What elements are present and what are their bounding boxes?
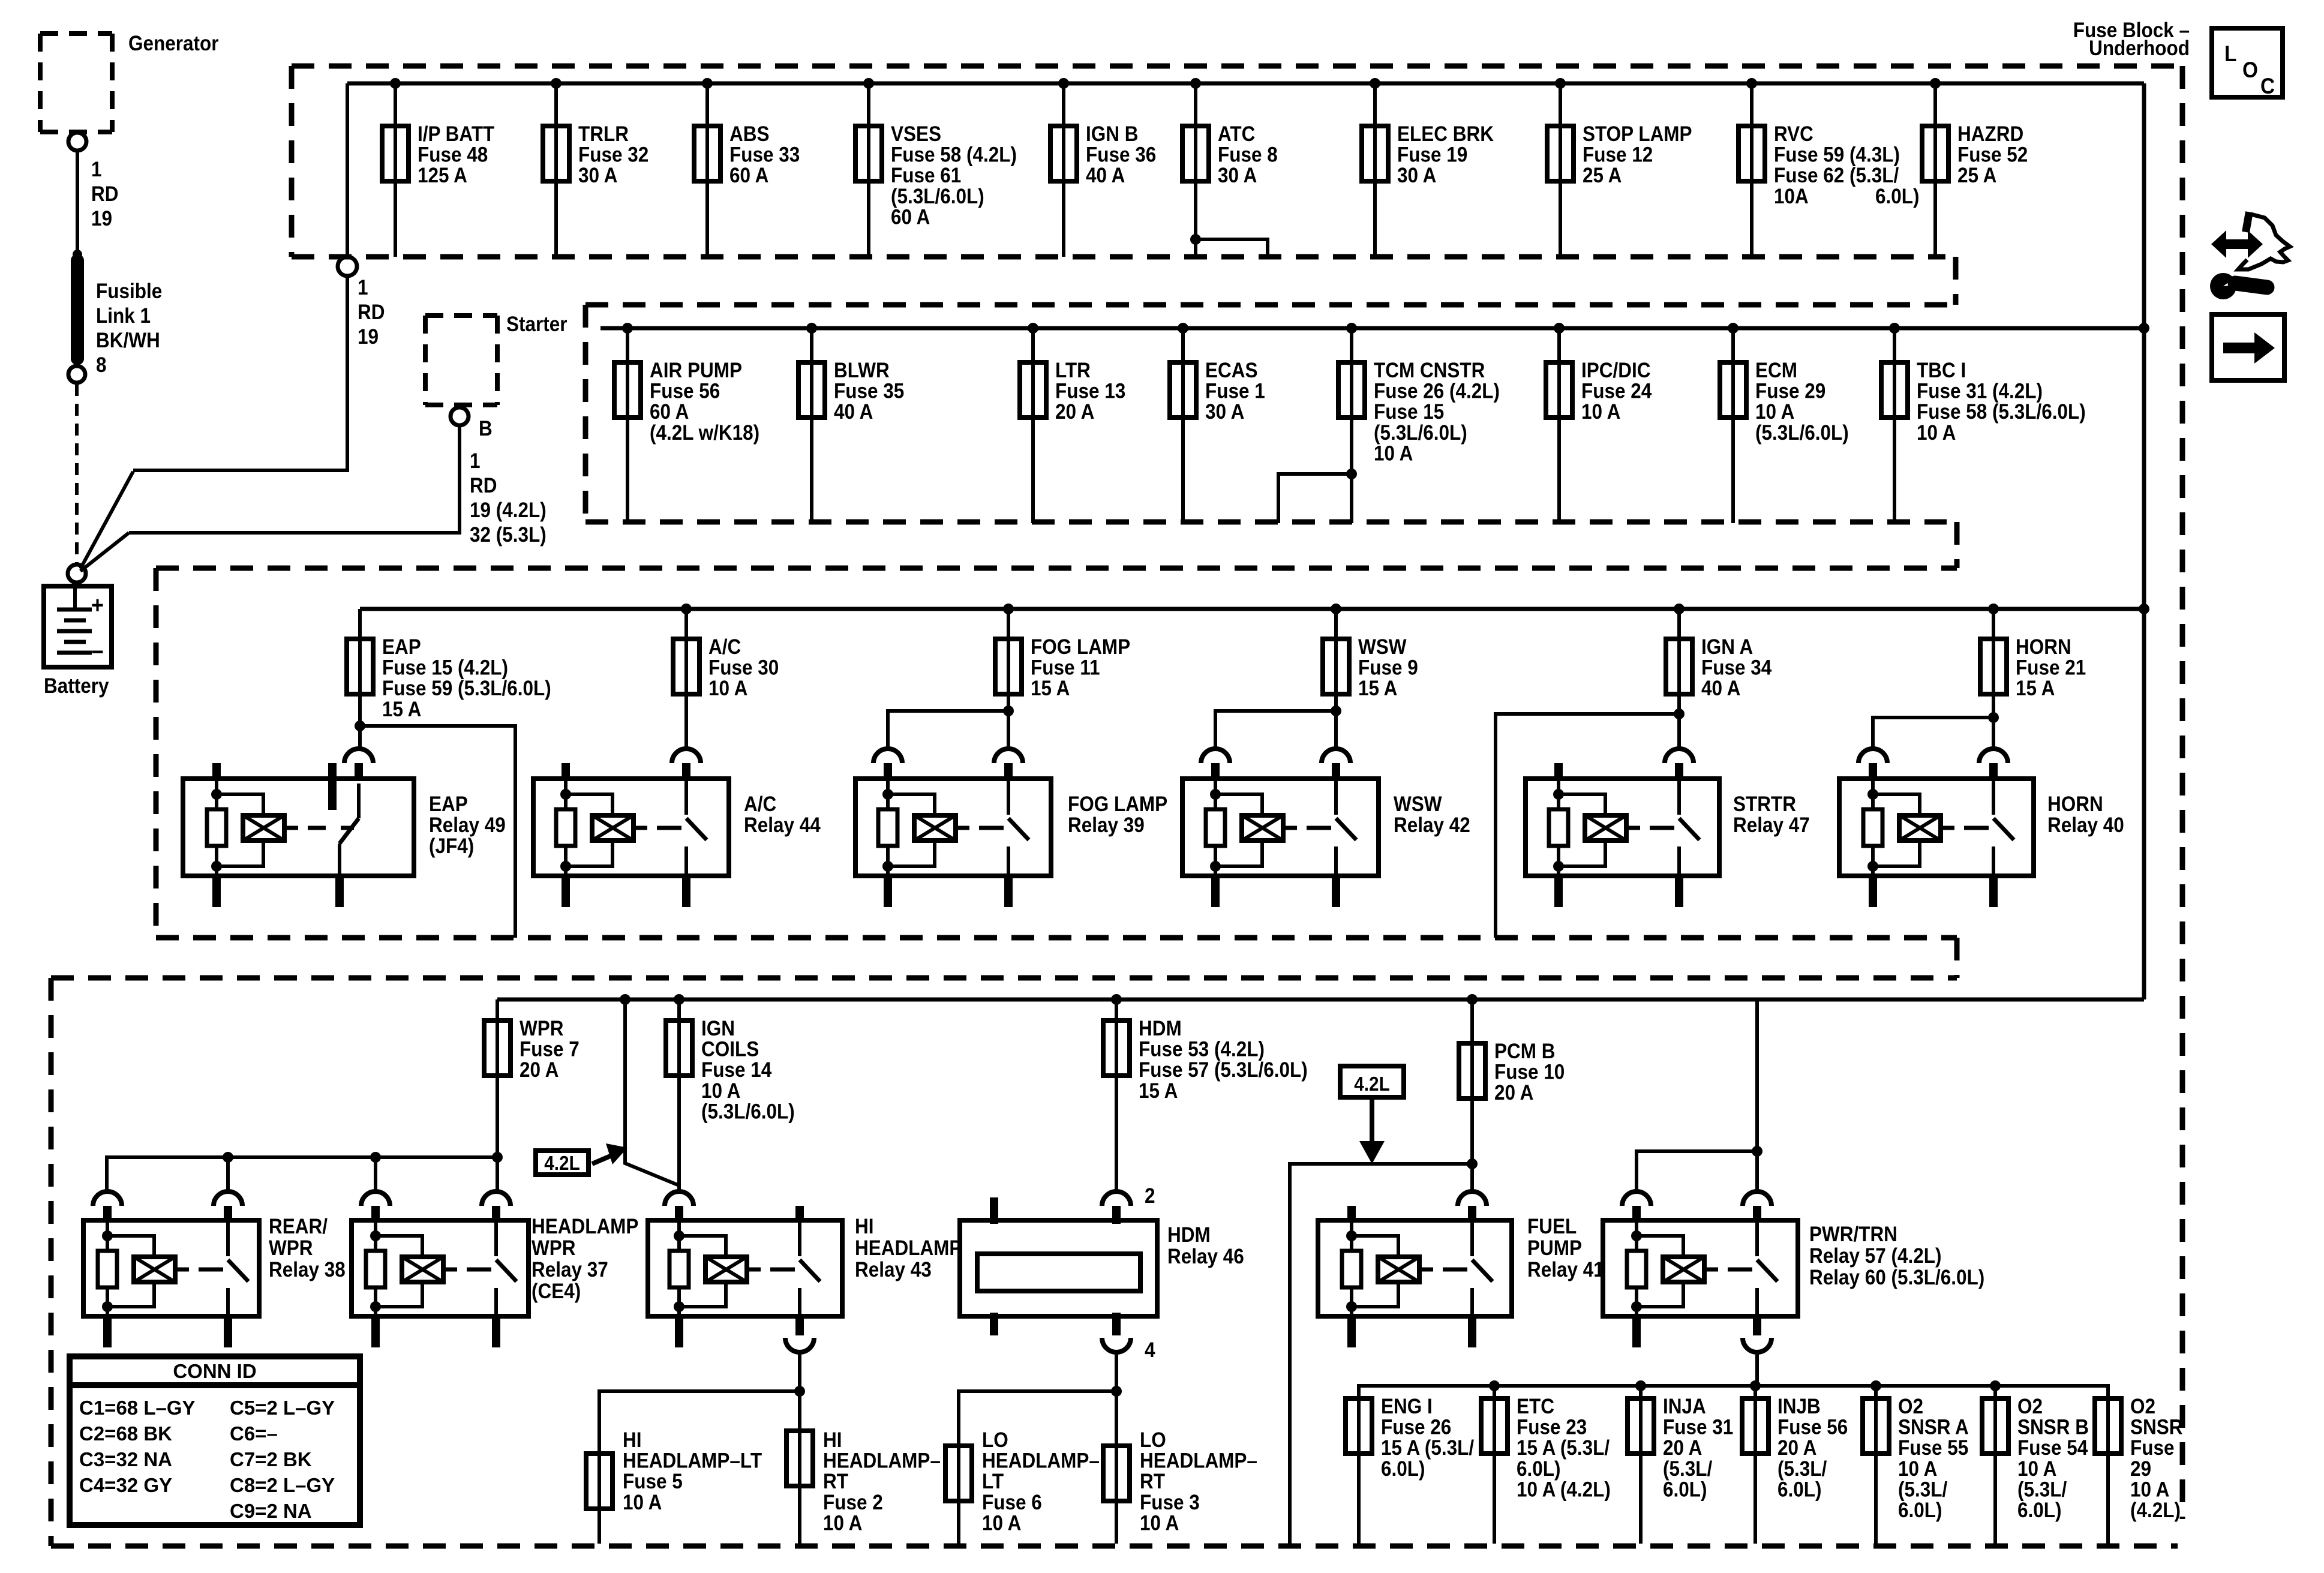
svg-text:ECM: ECM — [1755, 359, 1797, 383]
svg-text:Fuse 3: Fuse 3 — [1140, 1491, 1200, 1514]
wire battery riser to bus 1 — [133, 277, 347, 470]
wire PCM B branch to boundary — [1467, 1158, 1478, 1169]
relay FOG LAMP Relay 39 — [855, 779, 1051, 876]
svg-text:RVC: RVC — [1774, 123, 1813, 146]
svg-text:Fuse 56: Fuse 56 — [650, 380, 720, 403]
fuse TCM CNSTR Fuse 26/15 — [1346, 323, 1357, 334]
wire bus 2 (row 2) — [600, 326, 2144, 331]
battery B+ — [44, 586, 112, 667]
fuse INJB Fuse 56 — [1753, 1386, 1757, 1544]
wire starter B to battery splice — [129, 425, 460, 533]
svg-text:VSES: VSES — [891, 123, 941, 146]
svg-text:Fuse 54: Fuse 54 — [2017, 1437, 2088, 1460]
svg-text:Fuse 58 (4.2L): Fuse 58 (4.2L) — [891, 143, 1017, 167]
callout 4.2L (fuel pump) — [1340, 1066, 1404, 1097]
svg-text:Fuse 26: Fuse 26 — [1381, 1416, 1451, 1439]
svg-text:IGN: IGN — [701, 1017, 735, 1041]
svg-text:+: + — [91, 592, 104, 619]
svg-text:4: 4 — [1145, 1339, 1155, 1362]
svg-text:HEADLAMP: HEADLAMP — [855, 1237, 962, 1260]
svg-text:29: 29 — [2130, 1457, 2151, 1481]
svg-text:15 A: 15 A — [1139, 1079, 1178, 1103]
svg-text:19 (4.2L): 19 (4.2L) — [470, 499, 547, 523]
svg-text:(5.3L/: (5.3L/ — [2017, 1478, 2067, 1502]
svg-text:WPR: WPR — [269, 1237, 313, 1260]
svg-text:Fuse 57 (5.3L/6.0L): Fuse 57 (5.3L/6.0L) — [1139, 1059, 1308, 1082]
svg-text:Battery: Battery — [44, 675, 109, 698]
svg-text:HI: HI — [623, 1429, 641, 1452]
svg-text:20 A: 20 A — [1663, 1437, 1702, 1460]
svg-text:LO: LO — [982, 1429, 1008, 1452]
svg-text:Fuse 2: Fuse 2 — [823, 1491, 883, 1514]
svg-text:(5.3L/6.0L): (5.3L/6.0L) — [701, 1100, 795, 1124]
svg-text:Relay 42: Relay 42 — [1394, 814, 1470, 837]
svg-text:15 A: 15 A — [1358, 677, 1397, 701]
svg-text:Fuse 21: Fuse 21 — [2016, 656, 2086, 680]
icon LOC box — [2212, 28, 2283, 97]
svg-text:TBC I: TBC I — [1917, 359, 1966, 383]
fuse ENG I Fuse 26 — [1357, 1386, 1361, 1544]
relay STRTR Relay 47 — [1526, 779, 1719, 876]
relay PWR/TRN Relay 57/60 — [1603, 1220, 1798, 1316]
svg-text:L: L — [2224, 41, 2236, 66]
svg-text:Relay 39: Relay 39 — [1068, 814, 1145, 837]
svg-text:20 A: 20 A — [1777, 1437, 1816, 1460]
svg-text:6.0L): 6.0L) — [2017, 1499, 2061, 1523]
fuse STOP LAMP Fuse 12 — [1555, 78, 1566, 89]
svg-text:Relay 60 (5.3L/6.0L): Relay 60 (5.3L/6.0L) — [1809, 1266, 1984, 1290]
svg-text:10 A: 10 A — [1898, 1457, 1937, 1481]
svg-text:(4.2L w/K18): (4.2L w/K18) — [650, 421, 759, 445]
svg-text:10 A: 10 A — [823, 1512, 862, 1535]
svg-text:Fuse 26 (4.2L): Fuse 26 (4.2L) — [1374, 380, 1500, 403]
svg-text:RD: RD — [91, 183, 118, 206]
fuse TRLR Fuse 32 — [551, 78, 562, 89]
fuse block boundary box 3 (row 3) — [156, 566, 1957, 571]
component Starter (dashed box) — [425, 313, 497, 318]
fuse O2 SNSR A Fuse 55 — [1874, 1386, 1878, 1544]
svg-text:O2: O2 — [1898, 1395, 1923, 1419]
svg-text:6.0L): 6.0L) — [1898, 1499, 1942, 1523]
svg-text:Fuse 14: Fuse 14 — [701, 1059, 772, 1082]
svg-text:COILS: COILS — [701, 1038, 759, 1061]
svg-text:40 A: 40 A — [1086, 164, 1125, 188]
svg-text:4.2L: 4.2L — [1354, 1073, 1389, 1095]
svg-text:19: 19 — [358, 326, 379, 349]
wire relay feed bus (wiper relays) — [492, 1152, 503, 1163]
wire fusible link to battery splice (dashed) — [75, 384, 79, 564]
svg-text:30 A: 30 A — [1205, 401, 1244, 424]
svg-text:RT: RT — [1140, 1470, 1165, 1494]
svg-text:Underhood: Underhood — [2089, 37, 2190, 61]
svg-text:REAR/: REAR/ — [269, 1215, 328, 1239]
wire HI headlamp sub-bus — [798, 1355, 801, 1391]
svg-text:Fuse 34: Fuse 34 — [1701, 656, 1772, 680]
relay HORN Relay 40 — [1839, 779, 2034, 876]
fuse LO HEADLAMP-RT Fuse 3 — [1115, 1391, 1118, 1544]
svg-text:(5.3L/: (5.3L/ — [1663, 1457, 1712, 1481]
svg-text:HEADLAMP–: HEADLAMP– — [982, 1449, 1100, 1473]
fuse INJA Fuse 31 — [1639, 1386, 1643, 1544]
svg-text:Fuse 58 (5.3L/6.0L): Fuse 58 (5.3L/6.0L) — [1917, 401, 2086, 424]
svg-text:TRLR: TRLR — [578, 123, 629, 146]
svg-text:ELEC BRK: ELEC BRK — [1397, 123, 1494, 146]
svg-text:EAP: EAP — [429, 793, 468, 816]
svg-text:25 A: 25 A — [1583, 164, 1622, 188]
svg-text:Fuse 36: Fuse 36 — [1086, 143, 1156, 167]
svg-text:10 A: 10 A — [701, 1079, 740, 1103]
fuse ABS Fuse 33 — [702, 78, 713, 89]
svg-text:B: B — [479, 418, 493, 441]
svg-text:10A: 10A — [1774, 185, 1809, 209]
svg-text:EAP: EAP — [382, 636, 421, 659]
svg-text:ECAS: ECAS — [1205, 359, 1257, 383]
svg-text:HI: HI — [823, 1429, 842, 1452]
svg-text:(5.3L/: (5.3L/ — [1777, 1457, 1827, 1481]
fuse HAZRD Fuse 52 — [1930, 78, 1941, 89]
svg-text:Relay 47: Relay 47 — [1733, 814, 1810, 837]
svg-text:Fuse 5: Fuse 5 — [623, 1470, 683, 1494]
svg-text:HORN: HORN — [2047, 793, 2103, 816]
svg-text:FUEL: FUEL — [1527, 1215, 1577, 1239]
svg-text:Fuse 6: Fuse 6 — [982, 1491, 1042, 1514]
svg-text:CONN ID: CONN ID — [173, 1360, 256, 1382]
svg-text:8: 8 — [96, 354, 107, 377]
svg-text:2: 2 — [1145, 1185, 1155, 1208]
svg-text:Fuse 61: Fuse 61 — [891, 164, 961, 188]
icon service hood outline — [2242, 211, 2253, 233]
terminal B ring — [451, 407, 469, 425]
fuse A/C Fuse 30 — [681, 604, 692, 614]
svg-text:125 A: 125 A — [418, 164, 467, 188]
wire bus 3 (row 3) — [360, 607, 2144, 611]
svg-text:Fuse 55: Fuse 55 — [1898, 1437, 1968, 1460]
svg-text:Fuse 7: Fuse 7 — [520, 1038, 580, 1061]
svg-text:15 A: 15 A — [382, 698, 421, 721]
fuse EAP Fuse 15/59 — [358, 609, 362, 748]
fuse HI HEADLAMP-RT Fuse 2 — [798, 1391, 801, 1544]
svg-text:FOG LAMP: FOG LAMP — [1068, 793, 1167, 816]
node junction at fusible link top — [73, 250, 82, 259]
fuse ATC Fuse 8 — [1190, 78, 1201, 89]
svg-text:20 A: 20 A — [520, 1059, 559, 1082]
fuse HORN Fuse 21 — [1988, 604, 1999, 614]
svg-text:Fuse 13: Fuse 13 — [1055, 380, 1125, 403]
fuse IGN A Fuse 34 — [1674, 604, 1685, 614]
svg-text:Fuse 62 (5.3L/: Fuse 62 (5.3L/ — [1774, 164, 1899, 188]
svg-text:6.0L): 6.0L) — [1663, 1478, 1707, 1502]
svg-text:PWR/TRN: PWR/TRN — [1809, 1223, 1897, 1247]
svg-text:(JF4): (JF4) — [429, 835, 474, 858]
wire bus 4 (row 4) — [497, 998, 2144, 1002]
svg-text:Fuse 31 (4.2L): Fuse 31 (4.2L) — [1917, 380, 2043, 403]
svg-text:(4.2L): (4.2L) — [2130, 1499, 2181, 1523]
wire Generator to Fusible Link 1 — [76, 151, 79, 254]
svg-text:C7=2 BK: C7=2 BK — [230, 1448, 312, 1470]
svg-text:Fusible: Fusible — [96, 280, 162, 304]
svg-text:10 A: 10 A — [623, 1491, 662, 1514]
svg-text:(5.3L/: (5.3L/ — [1898, 1478, 1947, 1502]
svg-text:A/C: A/C — [708, 636, 741, 659]
fuse IGN COILS Fuse 14 — [674, 994, 684, 1005]
fuse WPR Fuse 7 — [496, 999, 499, 1157]
svg-text:15 A (5.3L/: 15 A (5.3L/ — [1381, 1437, 1474, 1460]
svg-text:Relay 41: Relay 41 — [1527, 1259, 1604, 1282]
svg-text:Fuse 59 (5.3L/6.0L): Fuse 59 (5.3L/6.0L) — [382, 677, 551, 701]
svg-text:SNSR A: SNSR A — [1898, 1416, 1969, 1439]
svg-text:LT: LT — [982, 1470, 1004, 1494]
icon arrow box — [2212, 314, 2284, 380]
fuse VSES Fuse 58/61 — [863, 78, 874, 89]
fuse WSW Fuse 9 — [1331, 604, 1341, 614]
svg-text:Relay 37: Relay 37 — [532, 1259, 608, 1282]
fuse O2 SNSR Fuse 29 — [2106, 1386, 2110, 1544]
fuse RVC Fuse 59/62 — [1746, 78, 1757, 89]
svg-text:10 A: 10 A — [1581, 401, 1620, 424]
svg-text:Relay 38: Relay 38 — [269, 1259, 346, 1282]
wire EAP branch to boundary — [360, 726, 515, 938]
node bus2-riser junction — [2139, 323, 2149, 334]
connector ring on main feed riser — [338, 257, 357, 276]
svg-text:STOP LAMP: STOP LAMP — [1583, 123, 1692, 146]
fuse IPC/DIC Fuse 24 — [1554, 323, 1565, 334]
svg-text:BK/WH: BK/WH — [96, 329, 160, 353]
fuse block boundary box 1 (row 1) — [292, 64, 2182, 69]
svg-text:Fuse 1: Fuse 1 — [1205, 380, 1265, 403]
svg-text:10 A: 10 A — [708, 677, 747, 701]
svg-text:RT: RT — [823, 1470, 848, 1494]
svg-text:10 A: 10 A — [982, 1512, 1021, 1535]
fuse I/P BATT Fuse 48 — [390, 78, 401, 89]
svg-text:Relay 46: Relay 46 — [1167, 1245, 1244, 1269]
svg-text:HAZRD: HAZRD — [1957, 123, 2023, 146]
svg-text:Fuse 15: Fuse 15 — [1374, 401, 1444, 424]
svg-text:Fuse 35: Fuse 35 — [834, 380, 904, 403]
wire 4.2L drop to ign coils feed — [620, 994, 630, 1005]
svg-text:Fuse 11: Fuse 11 — [1031, 656, 1100, 680]
svg-text:19: 19 — [91, 208, 112, 231]
svg-text:6.0L): 6.0L) — [1777, 1478, 1821, 1502]
fuse BLWR Fuse 35 — [806, 323, 817, 334]
svg-text:Link 1: Link 1 — [96, 305, 151, 328]
svg-text:HI: HI — [855, 1215, 873, 1239]
svg-text:INJA: INJA — [1663, 1395, 1706, 1419]
svg-text:HORN: HORN — [2016, 636, 2071, 659]
svg-text:C4=32 GY: C4=32 GY — [79, 1474, 172, 1496]
svg-text:(CE4): (CE4) — [532, 1280, 581, 1304]
fuse ELEC BRK Fuse 19 — [1370, 78, 1380, 89]
svg-text:15 A (5.3L/: 15 A (5.3L/ — [1517, 1437, 1610, 1460]
svg-text:STRTR: STRTR — [1733, 793, 1796, 816]
wire right riser bus1 to bus4 — [2142, 83, 2146, 999]
icon service left-right arrow — [2211, 230, 2263, 258]
relay REAR/WPR Relay 38 — [83, 1220, 259, 1316]
fuse block boundary box 2 (row 2) — [585, 302, 1956, 308]
relay WSW Relay 42 — [1182, 779, 1379, 876]
svg-text:RD: RD — [358, 301, 385, 325]
svg-text:LO: LO — [1140, 1429, 1166, 1452]
svg-text:HDM: HDM — [1139, 1017, 1182, 1041]
svg-text:Fuse 53 (4.2L): Fuse 53 (4.2L) — [1139, 1038, 1265, 1061]
svg-text:60 A: 60 A — [729, 164, 768, 188]
connector ring below Generator — [68, 133, 86, 151]
svg-text:Relay 44: Relay 44 — [744, 814, 821, 837]
svg-text:HEADLAMP–: HEADLAMP– — [823, 1449, 941, 1473]
icon service wrench — [2210, 273, 2236, 299]
svg-text:Fuse 8: Fuse 8 — [1218, 143, 1278, 167]
svg-text:Fuse 12: Fuse 12 — [1583, 143, 1653, 167]
svg-text:A/C: A/C — [744, 793, 776, 816]
svg-text:Fuse: Fuse — [2130, 1437, 2174, 1460]
fuse PCM B Fuse 10 — [1467, 994, 1478, 1005]
wire LO headlamp sub-bus — [1115, 1355, 1118, 1391]
svg-text:Fuse 9: Fuse 9 — [1358, 656, 1418, 680]
svg-text:Fuse 15 (4.2L): Fuse 15 (4.2L) — [382, 656, 508, 680]
svg-text:30 A: 30 A — [1397, 164, 1436, 188]
svg-text:HDM: HDM — [1167, 1224, 1211, 1247]
svg-text:WSW: WSW — [1358, 636, 1407, 659]
svg-text:10 A: 10 A — [2017, 1457, 2056, 1481]
svg-text:C5=2 L–GY: C5=2 L–GY — [230, 1397, 335, 1419]
svg-text:FOG LAMP: FOG LAMP — [1031, 636, 1130, 659]
svg-text:IGN B: IGN B — [1086, 123, 1138, 146]
svg-text:Fuse 24: Fuse 24 — [1581, 380, 1652, 403]
connector ring above battery — [68, 565, 86, 583]
svg-text:30 A: 30 A — [578, 164, 617, 188]
svg-text:Fuse 56: Fuse 56 — [1777, 1416, 1848, 1439]
relay HDM Relay 46 — [960, 1220, 1157, 1316]
svg-text:O2: O2 — [2017, 1395, 2043, 1419]
wire battery splice diagonal to bus riser — [80, 472, 133, 569]
svg-text:10 A: 10 A — [1917, 421, 1956, 445]
svg-text:(5.3L/6.0L): (5.3L/6.0L) — [1755, 421, 1849, 445]
wire battery splice diagonal to starter return — [80, 533, 129, 571]
node bus3-riser junction — [2139, 604, 2149, 614]
svg-text:SNSR B: SNSR B — [2017, 1416, 2089, 1439]
svg-text:INJB: INJB — [1777, 1395, 1821, 1419]
svg-text:Starter: Starter — [506, 313, 568, 337]
relay HEADLAMP WPR Relay 37 (CE4) — [352, 1220, 529, 1316]
svg-text:ETC: ETC — [1517, 1395, 1554, 1419]
svg-text:6.0L): 6.0L) — [1517, 1457, 1560, 1481]
connector ring below fusible link — [68, 366, 85, 383]
fuse O2 SNSR B Fuse 54 — [1993, 1386, 1997, 1544]
table CONN ID — [70, 1356, 360, 1525]
svg-text:30 A: 30 A — [1218, 164, 1257, 188]
svg-text:Fuse 29: Fuse 29 — [1755, 380, 1825, 403]
svg-text:WPR: WPR — [520, 1017, 563, 1041]
svg-text:1: 1 — [91, 158, 102, 182]
svg-text:HEADLAMP: HEADLAMP — [532, 1215, 638, 1239]
svg-text:10 A: 10 A — [1140, 1512, 1179, 1535]
fuse LTR Fuse 13 — [1028, 323, 1038, 334]
svg-text:RD: RD — [470, 475, 497, 498]
svg-text:C1=68 L–GY: C1=68 L–GY — [79, 1397, 196, 1419]
svg-text:Fuse 33: Fuse 33 — [729, 143, 800, 167]
svg-text:O2: O2 — [2130, 1395, 2155, 1419]
svg-text:Fuse 32: Fuse 32 — [578, 143, 648, 167]
svg-text:10 A: 10 A — [1374, 442, 1413, 466]
fuse IGN B Fuse 36 — [1058, 78, 1069, 89]
svg-text:Relay 43: Relay 43 — [855, 1259, 932, 1282]
fuse LO HEADLAMP-LT Fuse 6 — [957, 1391, 960, 1544]
fuse AIR PUMP Fuse 56 — [622, 323, 633, 334]
svg-text:6.0L): 6.0L) — [1875, 185, 1919, 209]
svg-text:TCM CNSTR: TCM CNSTR — [1374, 359, 1485, 383]
svg-text:Relay 40: Relay 40 — [2047, 814, 2124, 837]
svg-text:C3=32 NA: C3=32 NA — [79, 1448, 172, 1470]
fuse ECAS Fuse 1 — [1178, 323, 1188, 334]
svg-text:I/P BATT: I/P BATT — [418, 123, 494, 146]
svg-text:Generator: Generator — [128, 32, 219, 56]
svg-text:HEADLAMP–: HEADLAMP– — [1140, 1449, 1257, 1473]
svg-text:SNSR: SNSR — [2130, 1416, 2182, 1439]
fuse block boundary box 4 (row 4) — [51, 975, 1957, 981]
fuse HI HEADLAMP-LT Fuse 5 — [597, 1391, 601, 1544]
svg-text:(5.3L/6.0L): (5.3L/6.0L) — [1374, 421, 1467, 445]
svg-text:Fuse 52: Fuse 52 — [1957, 143, 2028, 167]
svg-text:Fuse 23: Fuse 23 — [1517, 1416, 1587, 1439]
svg-text:1: 1 — [470, 450, 481, 473]
svg-text:−: − — [91, 639, 104, 665]
svg-text:Fuse 30: Fuse 30 — [708, 656, 779, 680]
svg-text:AIR PUMP: AIR PUMP — [650, 359, 742, 383]
fuse ETC Fuse 23 — [1493, 1386, 1496, 1544]
svg-text:PCM B: PCM B — [1494, 1040, 1555, 1064]
svg-text:C8=2 L–GY: C8=2 L–GY — [230, 1474, 335, 1496]
svg-text:15 A: 15 A — [2016, 677, 2055, 701]
svg-text:O: O — [2242, 58, 2258, 82]
wire WSW branch to relay coil — [1215, 711, 1336, 748]
svg-text:1: 1 — [358, 277, 368, 300]
svg-text:C: C — [2260, 74, 2275, 98]
svg-text:6.0L): 6.0L) — [1381, 1457, 1425, 1481]
svg-text:C2=68 BK: C2=68 BK — [79, 1422, 172, 1445]
svg-text:40 A: 40 A — [1701, 677, 1740, 701]
svg-text:IGN A: IGN A — [1701, 636, 1753, 659]
svg-text:PUMP: PUMP — [1527, 1237, 1582, 1260]
svg-text:4.2L: 4.2L — [544, 1152, 580, 1175]
fuse ECM Fuse 29 — [1728, 323, 1739, 334]
wire IGN A branch to boundary — [1496, 714, 1679, 938]
svg-text:(5.3L/6.0L): (5.3L/6.0L) — [891, 185, 984, 208]
svg-text:10 A: 10 A — [1755, 401, 1794, 424]
wire engine fuse sub-bus — [1755, 1355, 1759, 1386]
svg-text:LTR: LTR — [1055, 359, 1091, 383]
svg-text:C9=2 NA: C9=2 NA — [230, 1500, 312, 1522]
fusible link 1 (thick bar) — [71, 254, 84, 365]
svg-text:ENG I: ENG I — [1381, 1395, 1433, 1419]
svg-text:10 A (4.2L): 10 A (4.2L) — [1517, 1478, 1611, 1502]
svg-text:10 A: 10 A — [2130, 1478, 2169, 1502]
callout 4.2L (ign coils) — [536, 1151, 588, 1175]
wire PWR/TRN feed from bus 4 — [1755, 999, 1759, 1190]
svg-text:Relay 57 (4.2L): Relay 57 (4.2L) — [1809, 1245, 1942, 1268]
fuse TBC I Fuse 31/58 — [1889, 323, 1900, 334]
relay A/C Relay 44 — [533, 779, 729, 876]
svg-text:40 A: 40 A — [834, 401, 873, 424]
svg-text:ATC: ATC — [1218, 123, 1255, 146]
svg-text:Fuse 59 (4.3L): Fuse 59 (4.3L) — [1774, 143, 1900, 167]
svg-text:ABS: ABS — [729, 123, 769, 146]
svg-text:20 A: 20 A — [1494, 1082, 1533, 1105]
svg-text:WSW: WSW — [1394, 793, 1442, 816]
svg-text:Fuse 19: Fuse 19 — [1397, 143, 1467, 167]
component Generator (dashed box) — [40, 31, 112, 36]
svg-text:BLWR: BLWR — [834, 359, 890, 383]
svg-text:Fuse 10: Fuse 10 — [1494, 1061, 1565, 1084]
svg-text:20 A: 20 A — [1055, 401, 1094, 424]
